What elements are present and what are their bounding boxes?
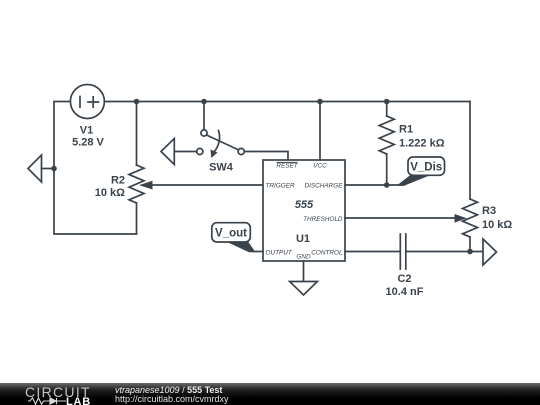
ground flag SW4 left [161,139,197,165]
ground U1 GND [290,282,318,296]
wire GND stem [303,261,305,282]
wire VCC [319,102,321,161]
wire V1 left / left column / bottom to R2 [54,102,137,235]
op-amp U1 555 timer box [263,160,345,261]
svg-text:555: 555 [295,199,314,211]
svg-text:RESET: RESET [276,163,298,170]
node junction R3 bottom [467,249,473,255]
svg-text:10.4 nF: 10.4 nF [386,286,424,298]
svg-text:V_Dis: V_Dis [410,161,442,173]
svg-text:GND: GND [296,253,311,260]
svg-text:R2: R2 [111,175,125,187]
wire C2 to ground flag [406,251,483,253]
wire SW4 top [203,102,205,130]
resistor R1 [379,102,394,186]
wire CONTROL to C2 [345,251,400,253]
node junction R1 bottom [384,182,390,188]
net flag V_out [212,223,256,253]
svg-text:VCC: VCC [313,163,327,170]
wire SW4 right to RESET [244,152,288,161]
wire DISCHARGE [345,184,404,186]
resistor R2 (potentiometer) [129,102,144,235]
label R3 10 kOhm [482,205,512,231]
svg-text:OUTPUT: OUTPUT [266,249,293,256]
node junction left [51,166,57,172]
svg-text:TRIGGER: TRIGGER [266,182,295,189]
footer bar [0,383,540,405]
footer title text [115,385,222,395]
svg-text:R1: R1 [399,124,413,136]
svg-text:10 kΩ: 10 kΩ [95,187,125,199]
svg-text:V_out: V_out [215,227,247,239]
label R1 1.222 kOhm [399,124,445,150]
wire top rail [105,101,470,103]
label C2 10.4 nF [386,273,424,298]
net flag V_Dis [397,157,445,186]
voltage source V1 [70,85,104,119]
node junction SW4 top [201,99,207,105]
capacitor C2 [400,234,406,269]
wire THRESHOLD to R3 wiper [345,214,467,223]
switch SW4 [197,130,245,158]
wire R2 wiper to TRIGGER [139,181,263,190]
svg-text:5.28 V: 5.28 V [72,137,104,149]
svg-text:1.222 kΩ: 1.222 kΩ [399,138,445,150]
node junction R2 top [134,99,140,105]
wire right drop to R3 [469,102,471,200]
label V1 5.28 V [72,125,104,149]
node junction VCC [317,99,323,105]
svg-text:C2: C2 [397,273,411,285]
svg-text:10 kΩ: 10 kΩ [482,219,512,231]
CircuitLab logo [25,384,91,400]
svg-text:DISCHARGE: DISCHARGE [305,182,344,189]
svg-text:THRESHOLD: THRESHOLD [303,216,343,223]
ground flag left [28,155,54,182]
wire OUTPUT stub [254,251,263,253]
svg-text:CONTROL: CONTROL [311,249,343,256]
ground flag right [483,239,497,265]
node junction R1 top [384,99,390,105]
svg-text:R3: R3 [482,205,496,217]
svg-text:SW4: SW4 [209,162,234,174]
resistor R3 (potentiometer) [463,199,478,252]
svg-text:U1: U1 [296,233,310,245]
pin labels U1 [266,162,344,260]
label R2 10 kOhm [95,175,125,200]
svg-text:V1: V1 [80,125,93,137]
